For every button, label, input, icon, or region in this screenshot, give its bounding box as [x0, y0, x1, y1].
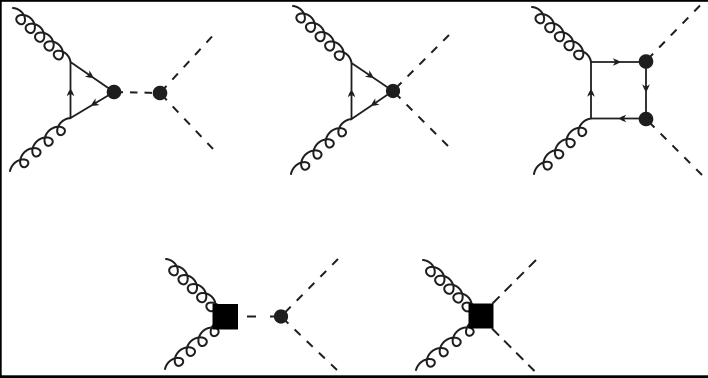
diagram 1: effective ggH vertex blob: [107, 85, 122, 100]
diagram 3: arrow on box top edge (rightward): [613, 58, 621, 66]
diagram 1: arrow on loop lower edge (toward lower-left): [91, 99, 100, 106]
diagram 2: incoming gluon g1 (upper left): [293, 6, 352, 63]
diagram 1: arrow on loop upper edge (toward vertex): [85, 70, 94, 78]
diagram 1: incoming gluon g2 (lower left): [10, 118, 71, 171]
diagram 1: outgoing dashed Higgs (lower right): [160, 93, 213, 149]
diagram 2: outgoing dashed Higgs (lower right): [393, 91, 448, 146]
diagram 4: dashed Higgs propagator (square to blob): [238, 316, 281, 318]
diagram 3: Yukawa vertex blob (upper): [639, 54, 654, 69]
diagram 3: arrow on box right edge (downward): [642, 84, 650, 92]
diagram 4: effective ggH contact vertex (filled square): [213, 304, 239, 330]
diagram 2: arrow on loop left edge (upward): [348, 89, 356, 97]
diagram 1: outgoing dashed Higgs (upper right): [160, 37, 212, 94]
diagram 3: arrow on box bottom edge (leftward): [618, 115, 626, 123]
diagram 4: Higgs self-coupling vertex blob: [274, 309, 288, 323]
diagram 3: outgoing dashed Higgs (upper right): [646, 6, 700, 62]
diagram 3: incoming gluon g1 (upper left): [532, 7, 591, 62]
diagram 5: effective ggHH contact vertex (filled square): [469, 304, 494, 329]
diagram 3: Yukawa vertex blob (lower): [639, 112, 654, 127]
diagram 4: incoming gluon g1 (upper left): [166, 259, 223, 314]
diagram 2: arrow on loop upper edge (toward vertex): [365, 70, 374, 78]
diagram 3: incoming gluon g2 (lower left): [534, 119, 591, 175]
diagram 1: arrow on loop left edge (upward): [67, 88, 75, 96]
diagram 3: arrow on box left edge (upward): [587, 89, 595, 97]
diagram 2: outgoing dashed Higgs (upper right): [393, 35, 449, 91]
diagram 1: Higgs self-coupling vertex blob: [153, 86, 168, 101]
diagram 3: quark-loop box (fermion lines): [591, 62, 646, 119]
diagram 5: incoming gluon g2 (lower left): [416, 319, 480, 370]
diagram 5: outgoing dashed Higgs (upper right): [493, 260, 537, 304]
diagram 3: outgoing dashed Higgs (lower right): [646, 119, 702, 175]
diagram 2: quark-loop triangle (fermion lines): [352, 63, 394, 119]
diagram 1: dashed Higgs propagator between blobs: [114, 92, 160, 93]
diagram 2: arrow on loop lower edge (toward lower-left): [371, 98, 380, 106]
diagram 1: incoming gluon g1 (upper left): [13, 8, 71, 62]
diagram 5: outgoing dashed Higgs (lower right): [492, 329, 535, 372]
diagram 4: incoming gluon g2 (lower left): [165, 320, 224, 370]
diagram 4: outgoing dashed Higgs (upper right): [281, 259, 338, 317]
diagram 4: outgoing dashed Higgs (lower right): [281, 317, 337, 371]
diagram 2: incoming gluon g2 (lower left): [291, 119, 352, 174]
diagram 2: effective ggHH vertex blob: [386, 84, 400, 98]
diagram 5: incoming gluon g1 (upper left): [423, 260, 479, 314]
diagram 1: quark-loop triangle (fermion lines): [71, 62, 115, 118]
